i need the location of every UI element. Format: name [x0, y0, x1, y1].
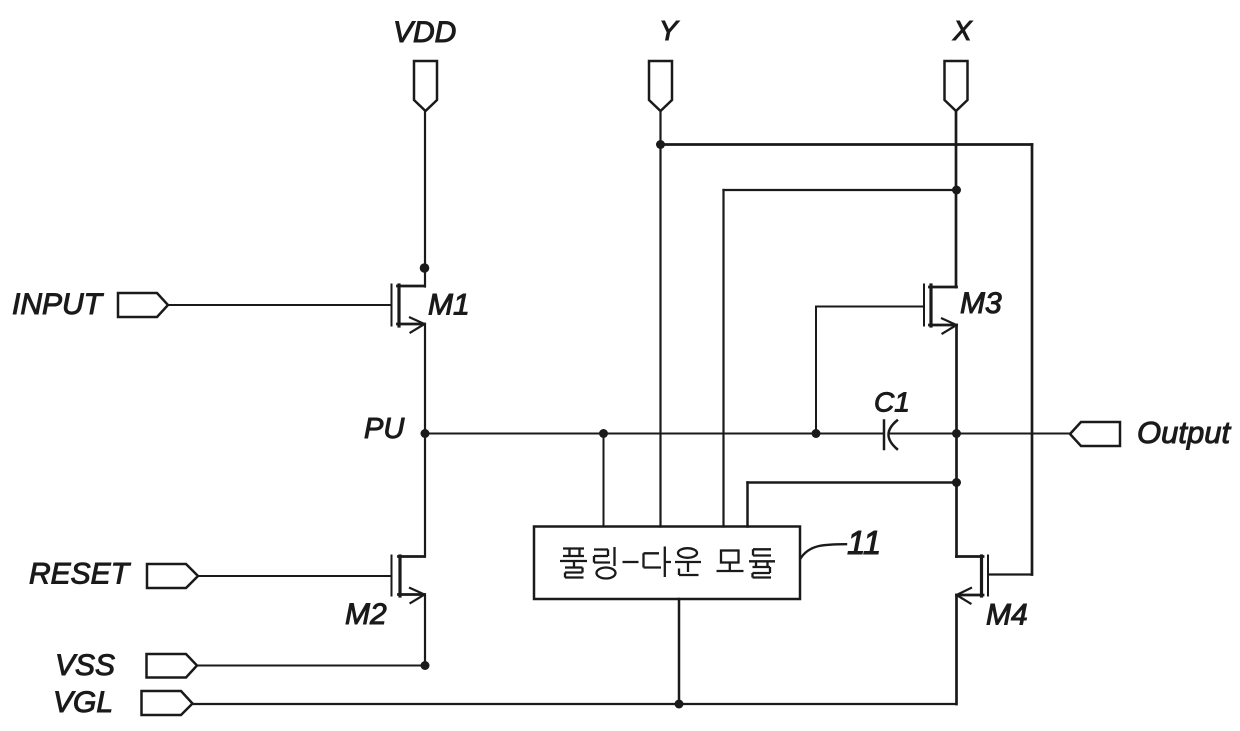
node dot above M1	[420, 263, 430, 273]
char ling	[594, 547, 615, 566]
wire Y to M4 gate horizontal	[661, 143, 1033, 146]
wire X rail top	[955, 111, 958, 287]
wire module bottom lead	[678, 599, 681, 704]
node dot VSS junction	[421, 661, 430, 670]
node dot at module drop	[599, 429, 608, 438]
wire VGL horizontal	[192, 703, 957, 705]
terminal VDD	[414, 61, 437, 111]
node dot X to module wire	[952, 186, 961, 195]
leader line for 11	[801, 544, 847, 558]
wire X rail bottom	[955, 595, 958, 704]
svg-text:X: X	[952, 15, 973, 46]
svg-text:M3: M3	[960, 287, 1002, 320]
svg-text:M2: M2	[345, 598, 387, 631]
svg-text:11: 11	[847, 524, 881, 561]
wire INPUT to M1 gate	[168, 304, 392, 306]
svg-text:PU: PU	[364, 413, 405, 445]
svg-text:INPUT: INPUT	[12, 288, 105, 321]
hyphen	[623, 561, 639, 563]
terminal X	[945, 61, 968, 111]
terminal Y	[649, 61, 672, 111]
wire Y rail	[659, 111, 661, 527]
transistor M2	[392, 556, 425, 604]
svg-text:C1: C1	[874, 387, 910, 418]
wire M2 source down	[424, 595, 426, 666]
wire M3 gate horizontal	[816, 306, 924, 308]
char mo	[721, 551, 739, 563]
svg-text:M1: M1	[428, 289, 470, 322]
svg-text:Y: Y	[659, 15, 680, 46]
pulling-down module box 11	[534, 527, 800, 600]
wire module in4 vertical	[746, 483, 749, 527]
terminal VSS	[147, 654, 198, 678]
svg-text:RESET: RESET	[29, 558, 132, 591]
wire module in4 horizontal	[748, 481, 957, 484]
wire C1 to Output	[890, 433, 1070, 435]
wire X to module horizontal	[724, 189, 957, 191]
wire M4 gate	[990, 573, 1033, 575]
terminal Output	[1070, 422, 1120, 446]
node dot VGL module	[675, 700, 684, 709]
wire M3 gate vertical	[815, 307, 817, 434]
wire VSS	[197, 665, 425, 667]
wire Y to M4 gate vertical	[1031, 145, 1034, 575]
transistor M3	[924, 285, 957, 334]
char pul	[560, 549, 587, 578]
svg-text:VSS: VSS	[55, 649, 115, 682]
node dot at M3 gate wire	[812, 429, 821, 438]
node dot X module in4	[952, 478, 961, 487]
wire PU horizontal to C1	[425, 433, 884, 435]
char un	[678, 548, 697, 558]
svg-text:Output: Output	[1137, 415, 1231, 450]
wire M1 source down to M2 drain	[424, 324, 426, 557]
wire RESET to M2 gate	[198, 575, 392, 577]
wire X to module vertical	[722, 190, 724, 527]
wire module drop 1	[603, 434, 605, 527]
wire X rail middle	[955, 325, 958, 557]
wire VDD rail	[424, 111, 426, 287]
char da	[644, 547, 672, 578]
char dyul	[749, 549, 775, 577]
terminal VGL	[142, 691, 193, 715]
svg-text:VGL: VGL	[53, 686, 113, 719]
node PU dot	[421, 429, 430, 438]
transistor M1	[392, 285, 425, 333]
terminal RESET	[147, 564, 198, 588]
terminal INPUT	[118, 293, 168, 317]
node dot Y	[656, 140, 665, 149]
svg-text:M4: M4	[986, 599, 1028, 632]
capacitor C1	[884, 421, 897, 450]
transistor M4	[957, 556, 989, 604]
module korean text pulling-down module	[560, 547, 775, 579]
node dot X output	[952, 429, 961, 438]
svg-text:VDD: VDD	[393, 16, 456, 49]
